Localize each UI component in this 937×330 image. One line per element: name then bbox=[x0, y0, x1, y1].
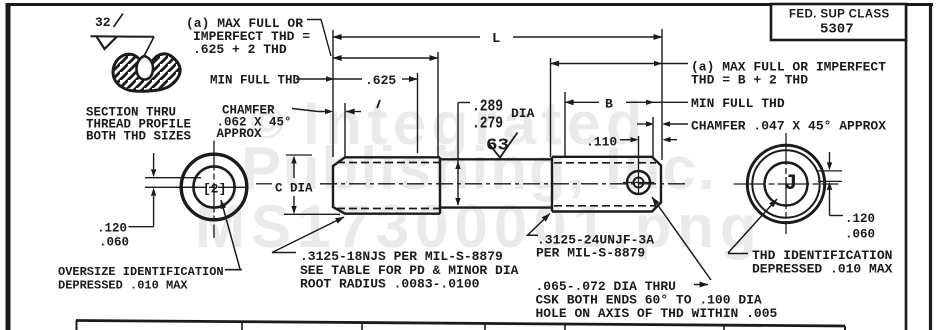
chamfer right arrows bbox=[637, 121, 688, 126]
svg-text:DEPRESSED .010 MAX: DEPRESSED .010 MAX bbox=[752, 262, 893, 277]
svg-text:32: 32 bbox=[95, 15, 111, 30]
right notes block bbox=[691, 60, 886, 134]
note .3125-18NJS bbox=[272, 217, 519, 292]
right end view circles bbox=[734, 133, 839, 234]
svg-text:.3125-18NJS PER MIL-S-8879: .3125-18NJS PER MIL-S-8879 bbox=[300, 249, 503, 264]
note .3125-24UNJF bbox=[528, 214, 655, 261]
page border left bbox=[6, 3, 11, 330]
dimension (a) right bbox=[551, 61, 689, 66]
svg-text:.060: .060 bbox=[99, 236, 129, 250]
table top bbox=[76, 321, 845, 330]
cross hole bbox=[623, 171, 654, 195]
svg-text:MIN FULL THD: MIN FULL THD bbox=[691, 96, 785, 111]
thd identification note bbox=[728, 199, 893, 277]
dia .289 .279 note bbox=[455, 98, 534, 207]
extension line right shoulder bbox=[550, 58, 552, 157]
centerline bbox=[256, 183, 688, 185]
C DIA dimension bbox=[275, 155, 340, 214]
thread profile section blob bbox=[113, 54, 180, 91]
left end view circles bbox=[176, 141, 250, 239]
svg-text:PER MIL-S-8879: PER MIL-S-8879 bbox=[536, 246, 645, 261]
note (a) max full left bbox=[186, 16, 331, 57]
svg-text:.120: .120 bbox=[97, 222, 127, 236]
extension line right chamfer bbox=[652, 117, 654, 157]
extension line left end face bbox=[332, 30, 334, 157]
dimension .110 bbox=[586, 135, 677, 150]
dimension .625+2THD bbox=[333, 57, 438, 59]
section thru label bbox=[86, 106, 192, 144]
svg-text:.625 + 2 THD: .625 + 2 THD bbox=[193, 42, 287, 57]
page border right outer bbox=[929, 3, 932, 330]
surface finish symbol 32 bbox=[91, 14, 155, 56]
svg-text:DIA: DIA bbox=[511, 106, 535, 121]
svg-text:B: B bbox=[605, 97, 613, 112]
svg-text:CHAMFER .047 X 45° APPROX: CHAMFER .047 X 45° APPROX bbox=[691, 119, 886, 134]
stud shank bbox=[440, 159, 552, 207]
svg-text:C DIA: C DIA bbox=[275, 182, 313, 196]
svg-text:.110: .110 bbox=[586, 135, 617, 150]
marking height dim right bbox=[818, 152, 875, 242]
page border right inner bbox=[905, 3, 908, 330]
marking height dim left bbox=[97, 153, 201, 250]
svg-text:OVERSIZE IDENTIFICATION: OVERSIZE IDENTIFICATION bbox=[58, 265, 224, 279]
svg-text:ROOT RADIUS .0083-.0100: ROOT RADIUS .0083-.0100 bbox=[300, 277, 480, 292]
svg-text:.060: .060 bbox=[845, 228, 875, 242]
page border top bbox=[6, 3, 933, 6]
note .065-.072 hole bbox=[536, 197, 778, 321]
svg-text:MIN FULL THD: MIN FULL THD bbox=[210, 74, 301, 88]
stud left threaded portion bbox=[333, 157, 440, 213]
svg-text:HOLE ON AXIS OF THD WITHIN .00: HOLE ON AXIS OF THD WITHIN .005 bbox=[536, 306, 778, 321]
dimension min full thd .625 bbox=[210, 73, 418, 88]
svg-text:APPROX: APPROX bbox=[217, 127, 263, 141]
svg-text:J: J bbox=[784, 171, 797, 196]
chamfer left note bbox=[217, 100, 381, 141]
extension line min full thd right bbox=[564, 92, 566, 157]
extension line left chamfer bbox=[344, 103, 346, 157]
svg-text:5307: 5307 bbox=[820, 22, 854, 38]
svg-text:THD = B + 2 THD: THD = B + 2 THD bbox=[691, 73, 808, 88]
svg-text:.120: .120 bbox=[845, 212, 875, 226]
svg-text:.279: .279 bbox=[472, 115, 503, 134]
svg-text:.625: .625 bbox=[365, 73, 396, 88]
svg-text:L: L bbox=[492, 31, 500, 47]
svg-text:BOTH THD SIZES: BOTH THD SIZES bbox=[86, 130, 192, 144]
extension line min full thd left bbox=[417, 73, 419, 153]
extension line right end face bbox=[661, 29, 663, 160]
extension line left shoulder bbox=[437, 52, 439, 157]
svg-text:[2]: [2] bbox=[203, 182, 226, 197]
svg-text:DEPRESSED .010 MAX: DEPRESSED .010 MAX bbox=[58, 279, 188, 293]
dimension L bbox=[333, 31, 662, 47]
FED SUP CLASS box bbox=[771, 4, 906, 40]
stud right threaded portion bbox=[552, 157, 661, 212]
dimension B bbox=[565, 97, 688, 112]
oversize identification note bbox=[58, 200, 242, 293]
surface 63 mark bbox=[486, 133, 518, 158]
svg-text:FED. SUP CLASS: FED. SUP CLASS bbox=[789, 9, 890, 21]
extension line hole center bbox=[638, 136, 640, 172]
